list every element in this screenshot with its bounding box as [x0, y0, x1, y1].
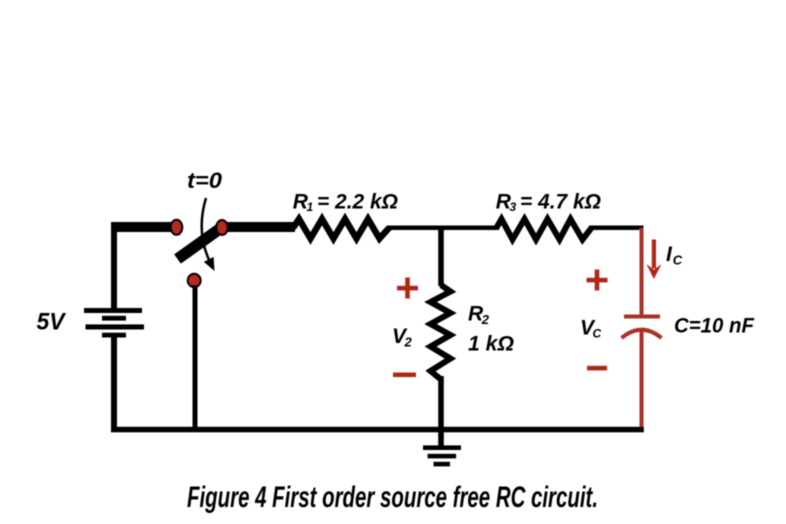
plus sign VC: [587, 270, 608, 291]
switch bottom contact dot: [188, 274, 201, 287]
label V2: [392, 325, 413, 349]
minus sign VC: [587, 366, 607, 371]
wire R2 bottom to ground rail: [438, 376, 444, 432]
ground: [423, 429, 461, 466]
resistor R1: [293, 219, 389, 239]
svg-text:1: 1: [307, 200, 314, 214]
switch actuation arrow: [202, 198, 215, 271]
capacitor C1 curved bottom plate: [622, 330, 662, 338]
plus sign V2: [397, 278, 418, 299]
current arrow IC: [646, 240, 661, 280]
svg-text:2: 2: [404, 334, 413, 349]
node A wire down to R2: [438, 226, 444, 286]
svg-text:Figure 4 First order source fr: Figure 4 First order source free RC circ…: [187, 481, 598, 514]
wire capacitor branch top (red): [640, 228, 644, 315]
wire battery top to switch left contact: [111, 222, 172, 308]
svg-text:1 kΩ: 1 kΩ: [468, 333, 514, 356]
label IC: [666, 243, 683, 268]
svg-text:5V: 5V: [37, 308, 67, 335]
svg-text:= 2.2 kΩ: = 2.2 kΩ: [317, 191, 398, 214]
svg-text:3: 3: [510, 200, 517, 214]
wire battery negative to rail: [111, 337, 117, 430]
label R3 = 4.7 kOhm: [496, 191, 601, 214]
wire R1 to node A to R3: [387, 226, 499, 231]
wire capacitor bottom to rail (red): [640, 330, 644, 432]
svg-text:C: C: [673, 253, 683, 268]
svg-text:= 4.7 kΩ: = 4.7 kΩ: [520, 191, 601, 214]
svg-text:C=10 nF: C=10 nF: [674, 315, 755, 338]
wire node A to R3 start is included above; resistor R3: [496, 219, 591, 240]
svg-text:2: 2: [481, 312, 490, 327]
capacitor C1 top plate: [624, 315, 660, 319]
label R2: [468, 303, 490, 327]
minus sign V2: [393, 373, 416, 378]
label R1 = 2.2 kOhm: [293, 191, 398, 214]
resistor R2: [431, 285, 451, 380]
wire switch to R1 (thick): [227, 222, 295, 232]
switch pivot dot right: [216, 220, 227, 235]
wire R3 to capacitor top: [589, 226, 644, 231]
svg-text:t=0: t=0: [187, 168, 223, 193]
wire bottom rail: [111, 427, 644, 433]
wire switch bottom contact to rail: [193, 285, 198, 431]
switch blade: [178, 227, 224, 260]
label VC: [580, 317, 602, 341]
battery V1 (5V source): [84, 308, 144, 338]
switch terminal dot left: [171, 220, 182, 235]
svg-text:C: C: [593, 327, 602, 341]
